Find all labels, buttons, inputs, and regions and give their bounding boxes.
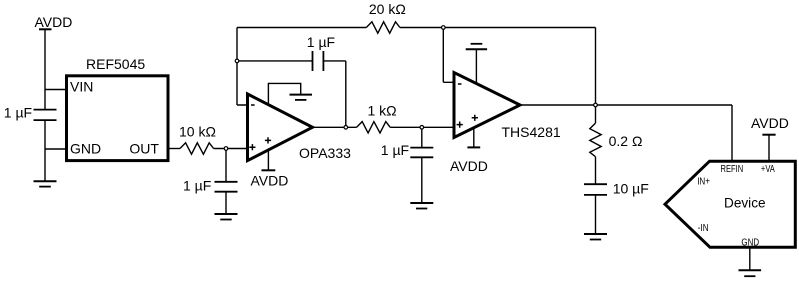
svg-text:VIN: VIN [70,79,93,95]
svg-text:AVDD: AVDD [450,158,488,174]
svg-text:GND: GND [70,141,101,157]
svg-text:AVDD: AVDD [35,14,73,30]
svg-text:IN+: IN+ [697,176,710,187]
svg-text:-IN: -IN [698,222,709,233]
svg-text:OPA333: OPA333 [299,145,351,161]
svg-text:OUT: OUT [129,141,159,157]
svg-text:1 µF: 1 µF [307,34,335,50]
svg-text:AVDD: AVDD [251,173,289,189]
svg-text:REF5045: REF5045 [86,56,145,72]
svg-text:0.2 Ω: 0.2 Ω [609,133,643,149]
svg-text:GND: GND [741,237,759,248]
svg-text:1 µF: 1 µF [183,178,211,194]
svg-text:1 µF: 1 µF [4,105,32,121]
svg-text:REFIN: REFIN [721,163,744,174]
svg-text:AVDD: AVDD [751,115,789,131]
svg-text:1 kΩ: 1 kΩ [368,103,397,119]
svg-text:1 µF: 1 µF [381,142,409,158]
svg-text:THS4281: THS4281 [502,124,561,140]
svg-text:20 kΩ: 20 kΩ [369,1,406,17]
svg-text:+VA: +VA [761,163,775,174]
svg-text:10 kΩ: 10 kΩ [179,124,216,140]
svg-text:Device: Device [724,196,766,211]
svg-text:10 µF: 10 µF [613,181,649,197]
